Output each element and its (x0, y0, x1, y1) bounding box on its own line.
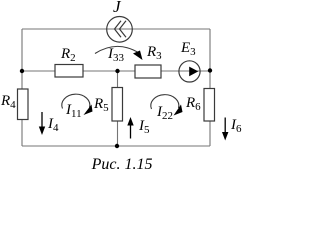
current arrow I6 (224, 118, 226, 135)
resistor R3 (135, 65, 161, 78)
label R2 (61, 46, 76, 64)
wire middle row (22, 70, 210, 72)
current arrow I5 (130, 124, 132, 139)
caption (0, 156, 244, 174)
loop arrow I11 (62, 94, 90, 108)
wire bottom (22, 145, 210, 147)
label I22 (157, 104, 173, 122)
wire right (209, 29, 211, 146)
current arrow I4 (41, 112, 43, 129)
resistor R4 (18, 89, 29, 120)
EMF source E3 (179, 61, 200, 82)
label J (113, 0, 121, 17)
node at R5 top (115, 69, 119, 73)
wire R5 branch (117, 71, 119, 146)
label R3 (147, 44, 162, 62)
loop arrow I33 (95, 46, 139, 53)
resistor R6 (204, 89, 215, 122)
node at left mid (20, 69, 24, 73)
node at E3 right (208, 68, 212, 72)
label I4 (48, 116, 59, 134)
resistor R5 (112, 88, 123, 122)
label I5 (139, 118, 150, 136)
current source J (107, 17, 133, 43)
label R5 (94, 96, 109, 114)
label I33 (108, 46, 124, 64)
label E3 (181, 40, 196, 58)
wire top (22, 28, 210, 30)
loop arrow I22 (151, 95, 179, 109)
label I11 (66, 102, 82, 120)
label R4 (1, 93, 16, 111)
resistor R2 (55, 65, 83, 78)
label R6 (186, 95, 201, 113)
label I6 (231, 117, 242, 135)
wire left (21, 29, 23, 146)
node at R5 bottom (115, 144, 119, 148)
